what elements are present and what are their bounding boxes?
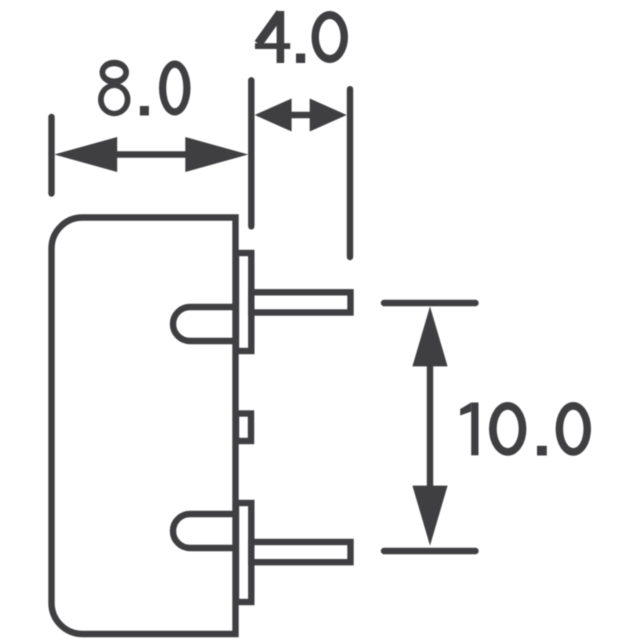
arrowhead 8.0 right [185,137,248,172]
extension tick at body left edge (8.0 dim) [48,117,54,194]
top terminal tab [236,253,251,351]
dimension label 10.0 [460,402,591,456]
top pin slot (rounded recess in body) [173,307,236,341]
period [296,54,305,64]
digit 0 first [489,402,526,456]
digit 0 second [556,402,591,456]
dimension label 8.0 [98,60,191,117]
digit 1 stem [471,403,478,456]
period [537,446,547,456]
bottom extension line (10.0 dim) [384,548,476,554]
dimension line 4.0 [289,112,312,118]
digit 0 [159,61,191,116]
top pin (lead) [251,292,350,312]
dimension line 10.0 [427,364,433,488]
arrowhead 8.0 left [54,137,117,172]
bottom pin slot (rounded recess in body) [173,514,236,548]
bottom terminal tab [236,503,251,602]
arrowhead 10.0 up [412,306,447,366]
extension line at pin end (4.0 dim) [347,89,353,257]
period [140,106,149,116]
arrowhead 10.0 down [412,486,447,546]
top extension line (10.0 dim) [384,300,476,306]
digit 1 flag [460,403,471,416]
extension line at tab right edge (shared by 8.0 and 4.0 dims) [248,80,254,226]
digit 4 stem [277,11,285,63]
digit 8 lower lobe [98,83,131,117]
arrowhead 4.0 left [255,99,292,132]
digit 4 crossbar [255,43,290,49]
bottom pin (lead) [251,542,350,562]
component body outline [52,218,236,635]
dimension label 4.0 [255,11,348,63]
digit 0 [312,11,349,63]
arrowhead 4.0 right [310,99,347,132]
digit 8 upper lobe [100,60,130,85]
dimension line 8.0 [115,151,187,157]
middle mounting tab [236,414,251,442]
digit 4 diagonal [258,13,280,44]
